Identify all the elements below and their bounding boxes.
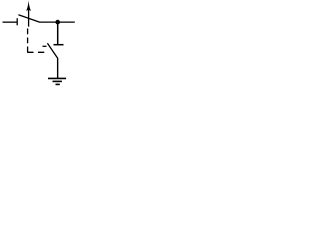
wire (top, to node)	[40, 21, 75, 23]
wire (left input, horizontal)	[3, 21, 17, 23]
switch S2 blade (pole 2, open)	[47, 43, 57, 58]
switch S1 blade (pole 1, open)	[18, 15, 40, 22]
wire (branch down from node)	[57, 22, 59, 44]
switch S1 left terminal tick	[16, 18, 18, 25]
mechanical linkage (dashed horizontal)	[27, 51, 44, 53]
switch S1 actuator arrowhead	[26, 0, 31, 11]
junction dot (node)	[55, 20, 60, 25]
mechanical linkage (dash at switch S2 blade)	[43, 45, 47, 47]
ground	[48, 78, 66, 84]
wire (blade pivot down to ground)	[57, 58, 59, 78]
mechanical linkage (dashed vertical)	[27, 29, 29, 53]
switch S2 fixed contact T-bar	[54, 44, 64, 46]
switch S1 actuator arrow shaft	[28, 9, 30, 27]
